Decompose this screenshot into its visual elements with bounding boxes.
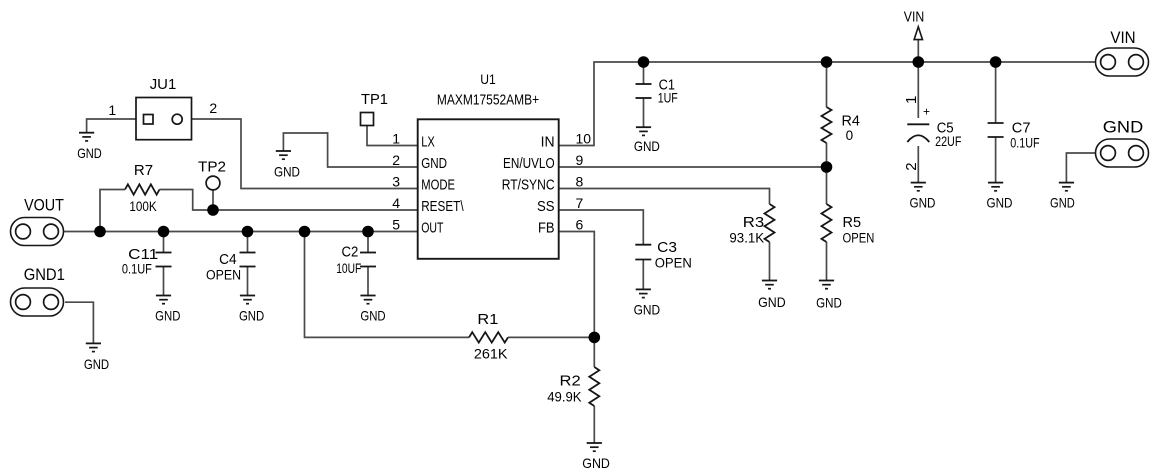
svg-text:0: 0 [846,128,854,143]
svg-text:6: 6 [576,217,584,233]
svg-text:49.9K: 49.9K [547,389,581,404]
svg-text:1UF: 1UF [658,91,678,106]
svg-text:GND: GND [1050,195,1075,211]
svg-text:VIN: VIN [1110,28,1135,47]
svg-text:TP2: TP2 [198,159,226,176]
svg-text:U1: U1 [480,71,496,87]
svg-text:GND: GND [155,308,180,324]
svg-text:10UF: 10UF [336,261,361,276]
svg-text:0.1UF: 0.1UF [1010,136,1039,151]
svg-text:GND: GND [758,294,786,310]
svg-text:VIN: VIN [904,10,925,26]
svg-text:JU1: JU1 [150,76,177,93]
svg-text:C2: C2 [342,243,359,260]
svg-text:R1: R1 [477,311,498,328]
svg-text:SS: SS [537,199,555,215]
svg-text:1: 1 [392,131,400,147]
svg-text:R3: R3 [743,214,764,231]
svg-text:R5: R5 [843,214,862,231]
svg-text:TP1: TP1 [361,91,388,108]
svg-text:100K: 100K [129,199,156,214]
svg-text:GND: GND [84,356,109,372]
svg-text:GND: GND [634,138,660,154]
svg-text:C11: C11 [128,246,158,263]
svg-text:4: 4 [392,195,400,211]
svg-text:2: 2 [392,152,400,168]
svg-text:GND: GND [421,156,447,172]
svg-text:9: 9 [576,152,584,168]
svg-text:GND1: GND1 [24,265,65,284]
svg-text:GND: GND [910,195,936,211]
svg-text:MODE: MODE [421,178,455,194]
svg-text:GND: GND [634,302,661,318]
svg-text:2: 2 [209,100,217,116]
svg-text:R7: R7 [134,162,153,179]
svg-text:GND: GND [1103,118,1143,137]
svg-text:OPEN: OPEN [206,267,241,282]
svg-text:RT/SYNC: RT/SYNC [502,178,555,194]
svg-text:C7: C7 [1012,120,1031,137]
svg-text:C3: C3 [657,239,677,256]
svg-text:GND: GND [274,164,300,180]
svg-text:+: + [923,105,930,119]
svg-text:GND: GND [360,308,385,324]
svg-text:261K: 261K [474,347,508,362]
svg-text:R2: R2 [560,373,581,390]
svg-text:1: 1 [903,96,920,104]
svg-text:5: 5 [392,217,400,233]
svg-text:1: 1 [108,102,116,118]
svg-text:OPEN: OPEN [655,256,692,271]
svg-text:R4: R4 [842,113,860,130]
svg-text:OPEN: OPEN [843,231,875,246]
svg-text:VOUT: VOUT [24,195,64,214]
svg-text:2: 2 [903,162,920,170]
svg-text:93.1K: 93.1K [729,231,764,246]
svg-text:22UF: 22UF [935,134,961,149]
svg-text:EN/UVLO: EN/UVLO [503,156,555,172]
svg-text:C4: C4 [219,251,237,268]
svg-text:LX: LX [421,135,435,151]
svg-text:IN: IN [541,135,555,151]
svg-text:8: 8 [576,174,584,190]
svg-text:GND: GND [582,455,610,471]
svg-text:MAXM17552AMB+: MAXM17552AMB+ [437,92,539,109]
svg-text:FB: FB [538,221,555,237]
svg-text:GND: GND [816,295,842,311]
svg-text:GND: GND [77,145,102,161]
svg-text:GND: GND [987,195,1013,211]
svg-text:10: 10 [576,131,592,147]
svg-text:OUT: OUT [421,221,443,237]
svg-text:7: 7 [576,195,584,211]
svg-text:3: 3 [392,174,400,190]
svg-text:0.1UF: 0.1UF [122,262,152,277]
svg-text:RESET\: RESET\ [421,199,464,215]
svg-text:GND: GND [239,308,264,324]
